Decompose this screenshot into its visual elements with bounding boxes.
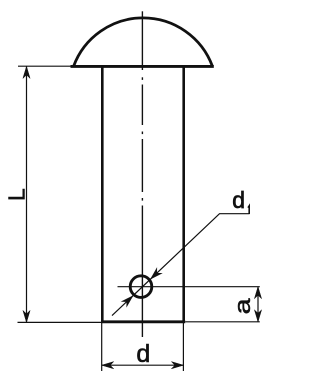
dimension L line [26, 66, 28, 322]
leader arrow upper-right (points at hole edge) [148, 268, 162, 281]
leader arrow lower-left (points at hole edge) [122, 293, 136, 306]
body left edge [101, 66, 104, 321]
dimension a arrow down [254, 310, 261, 322]
body right edge [182, 66, 185, 321]
svg-text:L: L [4, 188, 30, 201]
rivet head arc [74, 18, 213, 67]
dimension d line [102, 364, 184, 366]
svg-text:d: d [232, 187, 245, 213]
dimension d arrow left [102, 362, 114, 369]
svg-text:d: d [136, 340, 150, 368]
hole circle d1 [130, 276, 152, 298]
dimension d extension line right [182, 323, 184, 371]
dimension L extension line top [18, 65, 74, 67]
dimension d extension line left [101, 323, 103, 371]
svg-text:a: a [230, 297, 255, 314]
bottom extension line for a [185, 321, 260, 323]
leader line for d1 [112, 214, 250, 316]
dimension L extension line bottom [18, 321, 102, 323]
dimension a line [257, 287, 259, 322]
dimension L arrow down [23, 310, 30, 322]
vertical centerline (dash-dot) [142, 11, 143, 337]
head base line [71, 65, 214, 68]
body bottom line [101, 320, 185, 323]
hole horizontal centerline / extension line for a [118, 286, 260, 288]
dimension d arrow right [171, 362, 183, 369]
dimension L arrow up [23, 66, 30, 78]
label d1 subscript 1 [248, 206, 249, 214]
dimension a arrow up [254, 287, 261, 299]
